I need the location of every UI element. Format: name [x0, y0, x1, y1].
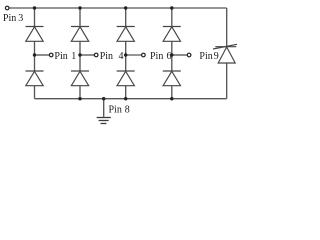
wire column1 top — [34, 8, 36, 27]
svg-text:4: 4 — [119, 51, 124, 62]
wire bottom bus — [35, 98, 227, 100]
junction mid column2 — [78, 53, 81, 56]
svg-text:Pin: Pin — [54, 51, 67, 62]
wire stub pin1 — [35, 54, 50, 56]
svg-text:6: 6 — [167, 51, 172, 62]
wire stub pin9 — [172, 54, 188, 56]
terminal Pin 9 — [187, 53, 191, 57]
label Pin 9 — [199, 51, 218, 62]
diode D2 bottom (column2) — [71, 71, 89, 86]
junction mid column3 — [124, 53, 127, 56]
label Pin 1 — [54, 51, 76, 62]
wire top bus — [9, 7, 227, 9]
terminal Pin 4 — [94, 53, 98, 57]
wire stub pin6 — [126, 54, 142, 56]
label Pin 3 — [3, 13, 23, 24]
diode D3 bottom (column3) — [117, 71, 135, 86]
junction bottom column2 — [78, 97, 81, 100]
wire stub pin4 — [80, 54, 94, 56]
ground symbol — [97, 118, 111, 124]
wire column2 top — [79, 8, 81, 27]
terminal Pin 1 — [49, 53, 53, 57]
zener diode Z1 (Pin 9 column) — [213, 44, 237, 63]
diode D3 top (column3) — [117, 27, 135, 42]
label Pin 6 — [150, 51, 172, 62]
diode D2 top (column2) — [71, 27, 89, 42]
diode D1 top (column1) — [26, 27, 44, 42]
wire column2 bottom — [79, 86, 81, 99]
svg-text:8: 8 — [125, 104, 130, 115]
label Pin 4 — [100, 51, 124, 62]
diode D4 bottom (column4) — [163, 71, 181, 86]
terminal Pin 6 — [142, 53, 146, 57]
wire column3 bottom — [125, 86, 127, 99]
wire column4 mid — [171, 41, 173, 71]
svg-text:Pin: Pin — [100, 51, 113, 62]
wire column1 mid — [34, 41, 36, 71]
wire column3 mid — [125, 41, 127, 71]
junction top column3 — [124, 6, 127, 9]
junction bottom column4 — [170, 97, 173, 100]
wire right column bottom — [226, 63, 228, 99]
junction bottom column3 — [124, 97, 127, 100]
junction top column2 — [78, 6, 81, 9]
svg-text:Pin: Pin — [150, 51, 163, 62]
junction top column4 — [170, 6, 173, 9]
wire column1 bottom — [34, 86, 36, 99]
wire ground tap — [103, 99, 105, 117]
label Pin 8 — [109, 104, 130, 115]
svg-text:Pin: Pin — [109, 104, 122, 115]
wire column3 top — [125, 8, 127, 27]
junction mid column4 — [170, 53, 173, 56]
diode D1 bottom (column1) — [26, 71, 44, 86]
diode D4 top (column4) — [163, 27, 181, 42]
junction bottom ground tap — [102, 97, 105, 100]
terminal Pin 3 — [5, 6, 9, 10]
svg-text:3: 3 — [18, 13, 23, 24]
wire right column top — [226, 8, 228, 47]
wire column2 mid — [79, 41, 81, 71]
svg-text:9: 9 — [214, 51, 219, 62]
svg-text:Pin: Pin — [3, 13, 16, 24]
wire column4 bottom — [171, 86, 173, 99]
junction top column1 — [33, 6, 36, 9]
junction mid column1 — [33, 53, 36, 56]
svg-text:1: 1 — [71, 51, 76, 62]
svg-text:Pin: Pin — [199, 51, 212, 62]
wire column4 top — [171, 8, 173, 27]
